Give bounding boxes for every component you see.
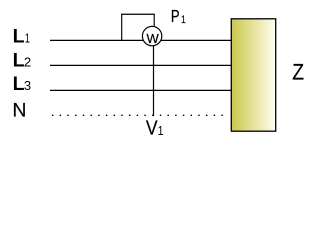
svg-text:1: 1 xyxy=(25,33,30,47)
svg-text:N: N xyxy=(12,100,26,122)
svg-text:L: L xyxy=(13,73,25,95)
wire N (neutral, dotted) xyxy=(52,114,228,116)
svg-text:Z: Z xyxy=(292,60,304,84)
wire current-coil loop of wattmeter xyxy=(122,14,155,40)
svg-text:V: V xyxy=(146,117,158,139)
svg-text:1: 1 xyxy=(158,124,164,138)
wire L1 (phase line 1) xyxy=(50,39,231,41)
svg-text:2: 2 xyxy=(24,55,31,70)
wire voltage lead V1 (wattmeter to neutral) xyxy=(153,45,155,116)
svg-text:W: W xyxy=(146,31,159,46)
wire L3 (phase line 3) xyxy=(50,89,231,91)
svg-text:1: 1 xyxy=(181,14,186,26)
svg-text:P: P xyxy=(171,7,180,26)
wattmeter P1 (circle) xyxy=(142,26,161,45)
svg-text:3: 3 xyxy=(24,78,31,93)
wire L2 (phase line 2) xyxy=(50,64,231,66)
svg-text:L: L xyxy=(13,49,25,71)
svg-text:L: L xyxy=(13,25,25,47)
load Z (three-phase load box) xyxy=(231,19,275,131)
